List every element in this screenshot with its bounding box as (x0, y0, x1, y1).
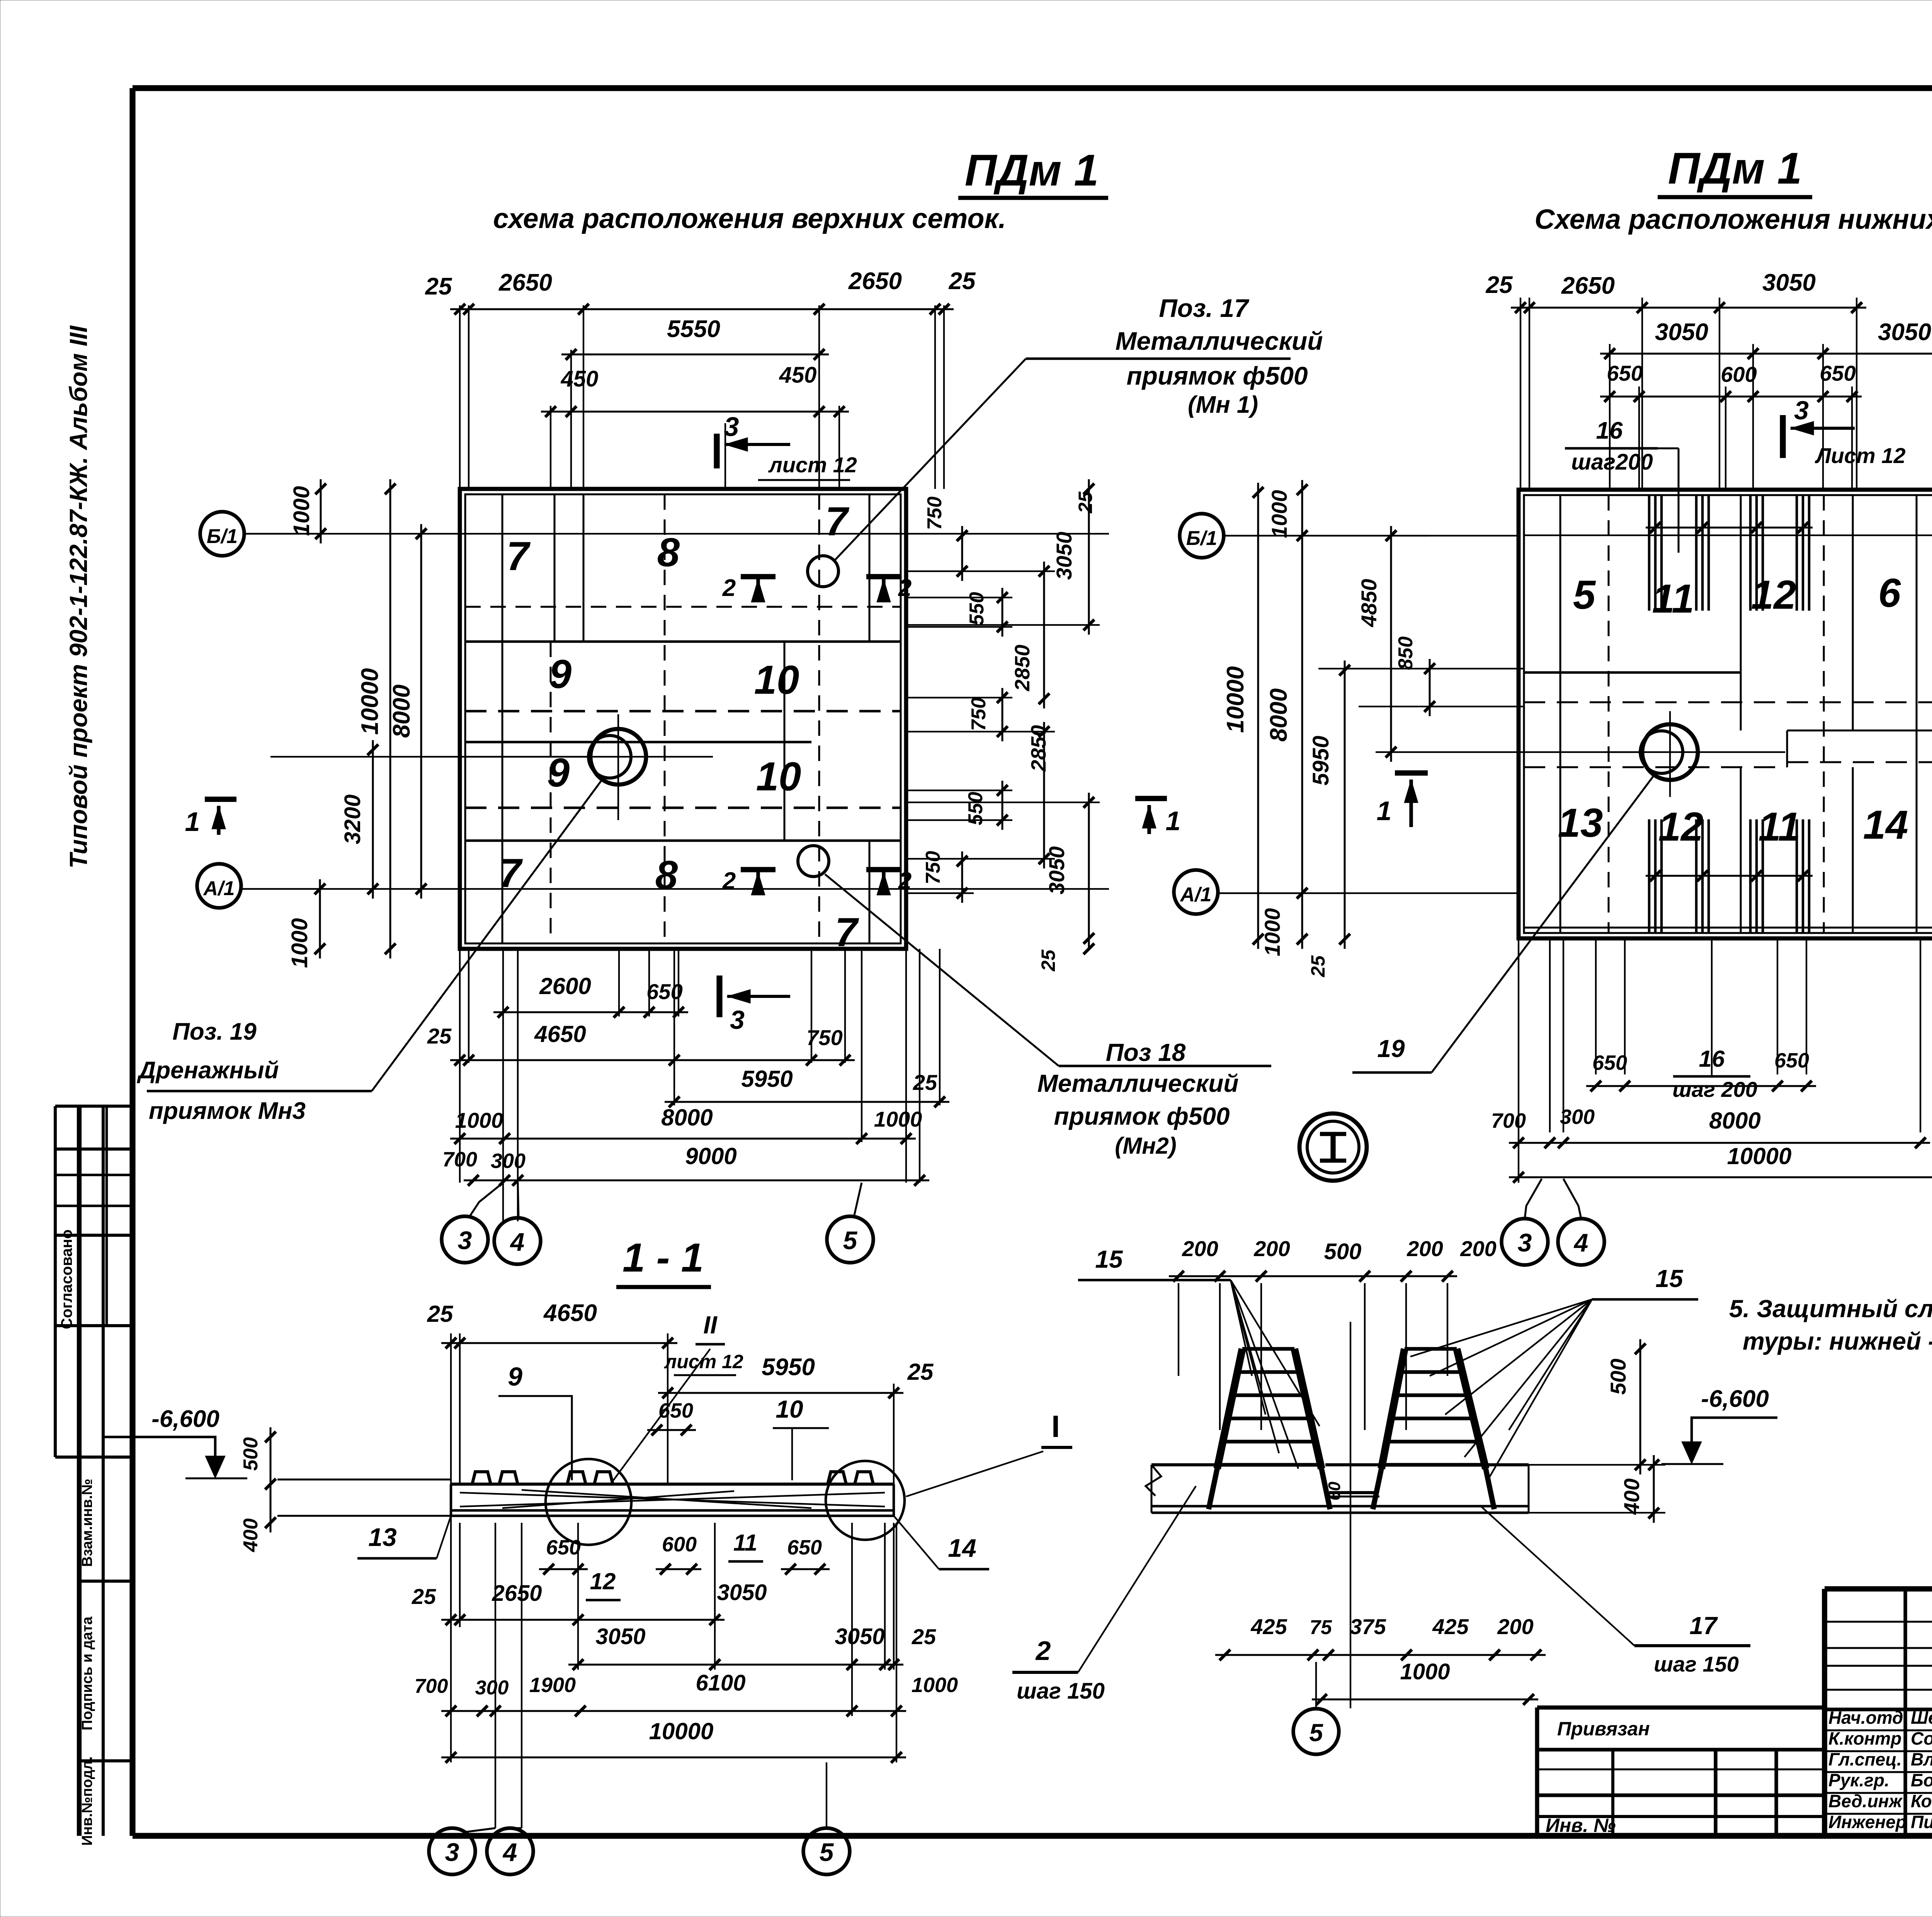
svg-text:Взам.инв.№: Взам.инв.№ (79, 1479, 95, 1567)
svg-text:Шейко: Шейко (1911, 1708, 1932, 1728)
svg-text:16: 16 (1596, 417, 1623, 444)
svg-text:13: 13 (368, 1523, 396, 1551)
svg-text:650: 650 (1607, 361, 1643, 385)
svg-text:Дренажный: Дренажный (137, 1057, 279, 1084)
svg-text:12: 12 (1658, 804, 1704, 850)
svg-text:650: 650 (1820, 361, 1855, 385)
svg-text:Инв. №: Инв. № (1546, 1815, 1616, 1836)
svg-text:Привязан: Привязан (1557, 1718, 1650, 1740)
svg-text:4650: 4650 (543, 1300, 597, 1326)
svg-text:2650: 2650 (492, 1581, 542, 1606)
svg-text:Гл.спец.: Гл.спец. (1828, 1749, 1902, 1769)
svg-text:19: 19 (1377, 1035, 1405, 1062)
svg-text:лист 12: лист 12 (768, 453, 857, 477)
svg-text:Власенко: Власенко (1911, 1749, 1932, 1769)
svg-text:-6,600: -6,600 (151, 1406, 219, 1432)
svg-text:25: 25 (427, 1024, 452, 1048)
svg-text:9000: 9000 (685, 1143, 736, 1169)
svg-text:12: 12 (590, 1568, 616, 1594)
svg-text:600: 600 (662, 1533, 697, 1556)
svg-text:К.контр: К.контр (1828, 1728, 1901, 1748)
svg-text:8000: 8000 (661, 1105, 713, 1130)
svg-text:17: 17 (1689, 1612, 1718, 1639)
svg-text:3: 3 (730, 1005, 745, 1035)
svg-text:лист 12: лист 12 (664, 1351, 743, 1372)
svg-text:приямок ф500: приямок ф500 (1054, 1102, 1230, 1130)
svg-text:6: 6 (1878, 570, 1901, 616)
svg-text:25: 25 (1486, 272, 1513, 298)
svg-text:5950: 5950 (741, 1066, 793, 1092)
svg-text:11: 11 (733, 1530, 757, 1556)
svg-text:1000: 1000 (874, 1107, 922, 1131)
svg-text:3: 3 (458, 1226, 472, 1255)
svg-text:3200: 3200 (340, 794, 365, 844)
svg-text:Сокольская: Сокольская (1911, 1728, 1932, 1748)
svg-text:700: 700 (1491, 1109, 1526, 1132)
svg-text:500: 500 (1324, 1239, 1362, 1264)
svg-text:750: 750 (923, 497, 946, 530)
svg-text:Поз. 19: Поз. 19 (172, 1018, 257, 1045)
svg-text:-6,600: -6,600 (1701, 1386, 1769, 1412)
svg-text:2: 2 (898, 868, 912, 894)
svg-text:I: I (1051, 1409, 1060, 1444)
svg-text:750: 750 (922, 851, 944, 885)
svg-text:7: 7 (507, 534, 531, 579)
svg-text:7: 7 (835, 910, 859, 955)
svg-text:шаг 200: шаг 200 (1672, 1077, 1757, 1102)
svg-text:10000: 10000 (1222, 666, 1249, 733)
svg-text:4650: 4650 (534, 1021, 586, 1047)
svg-text:7: 7 (825, 499, 850, 544)
svg-text:400: 400 (240, 1519, 262, 1553)
svg-text:1 - 1: 1 - 1 (622, 1235, 704, 1280)
svg-text:1000: 1000 (455, 1108, 503, 1132)
svg-text:300: 300 (491, 1149, 526, 1173)
svg-text:туры: нижней - 35мм, верхней: туры: нижней - 35мм, верхней - 20мм. (1743, 1327, 1932, 1355)
svg-text:650: 650 (1592, 1051, 1627, 1074)
svg-text:(Мн2): (Мн2) (1115, 1133, 1177, 1159)
svg-text:2: 2 (1035, 1636, 1051, 1666)
svg-text:Металлический: Металлический (1037, 1069, 1239, 1097)
svg-text:(Мн 1): (Мн 1) (1188, 392, 1258, 418)
svg-text:300: 300 (1560, 1105, 1595, 1129)
svg-text:Б/1: Б/1 (207, 525, 238, 548)
svg-text:25: 25 (1307, 955, 1329, 977)
svg-text:5: 5 (820, 1838, 834, 1866)
svg-text:II: II (703, 1311, 718, 1339)
svg-text:850: 850 (1395, 637, 1417, 670)
svg-text:12: 12 (1751, 572, 1796, 618)
svg-text:75: 75 (1310, 1616, 1332, 1639)
svg-text:Б/1: Б/1 (1186, 527, 1217, 550)
svg-text:1000: 1000 (287, 918, 312, 968)
svg-text:650: 650 (646, 979, 682, 1004)
svg-text:11: 11 (1652, 576, 1694, 621)
svg-text:5950: 5950 (1308, 735, 1333, 785)
svg-text:3050: 3050 (1655, 319, 1708, 346)
svg-text:3050: 3050 (1044, 846, 1069, 895)
svg-text:500: 500 (1606, 1359, 1630, 1394)
svg-text:3050: 3050 (1878, 319, 1931, 346)
svg-text:шаг 150: шаг 150 (1017, 1679, 1105, 1704)
svg-text:4: 4 (510, 1227, 525, 1256)
svg-text:Вед.инж: Вед.инж (1828, 1791, 1903, 1811)
svg-text:650: 650 (658, 1399, 693, 1422)
svg-text:Инженер: Инженер (1828, 1812, 1906, 1832)
svg-text:Борисенко: Борисенко (1911, 1770, 1932, 1790)
svg-text:1: 1 (1166, 806, 1181, 836)
svg-text:А/1: А/1 (203, 877, 235, 900)
svg-text:8000: 8000 (1265, 688, 1292, 742)
svg-text:5: 5 (843, 1226, 858, 1255)
svg-text:Поз 18: Поз 18 (1106, 1039, 1186, 1066)
svg-text:5550: 5550 (667, 316, 720, 342)
svg-text:8: 8 (655, 853, 678, 898)
svg-text:4: 4 (502, 1838, 517, 1866)
svg-text:Инв.№подл.: Инв.№подл. (79, 1756, 95, 1845)
svg-text:1000: 1000 (1400, 1659, 1450, 1684)
svg-text:13: 13 (1558, 800, 1603, 846)
svg-text:650: 650 (1774, 1049, 1809, 1072)
svg-text:ПДм 1: ПДм 1 (1668, 144, 1802, 193)
svg-text:8: 8 (657, 530, 680, 575)
svg-text:25: 25 (912, 1624, 936, 1649)
svg-text:1900: 1900 (529, 1674, 576, 1697)
svg-text:25: 25 (949, 268, 976, 295)
svg-text:2650: 2650 (1561, 272, 1615, 299)
svg-text:Нач.отд: Нач.отд (1828, 1708, 1903, 1728)
svg-text:10: 10 (754, 657, 799, 703)
svg-text:3050: 3050 (1052, 532, 1076, 580)
svg-text:450: 450 (561, 366, 599, 392)
svg-text:6100: 6100 (696, 1670, 745, 1696)
svg-text:11: 11 (1759, 804, 1801, 850)
svg-text:1000: 1000 (1260, 908, 1284, 957)
svg-text:5: 5 (1573, 572, 1596, 618)
svg-text:Пивоварова: Пивоварова (1911, 1812, 1932, 1832)
svg-text:1: 1 (1377, 796, 1392, 826)
svg-text:10000: 10000 (649, 1718, 714, 1744)
svg-text:2650: 2650 (848, 268, 902, 295)
svg-text:5950: 5950 (762, 1354, 815, 1381)
svg-text:450: 450 (779, 363, 817, 388)
svg-text:15: 15 (1655, 1265, 1684, 1292)
svg-text:425: 425 (1432, 1614, 1469, 1639)
svg-text:3050: 3050 (835, 1624, 884, 1649)
svg-text:2850: 2850 (1011, 645, 1034, 691)
svg-text:2600: 2600 (539, 973, 591, 999)
svg-text:425: 425 (1250, 1614, 1287, 1639)
svg-text:375: 375 (1350, 1614, 1386, 1639)
svg-text:9: 9 (508, 1362, 522, 1391)
svg-text:1000: 1000 (1267, 490, 1291, 538)
svg-text:приямок Мн3: приямок Мн3 (149, 1098, 306, 1124)
svg-text:3050: 3050 (595, 1624, 645, 1649)
svg-text:5: 5 (1309, 1719, 1323, 1747)
svg-text:Поз. 17: Поз. 17 (1159, 294, 1250, 322)
svg-text:1000: 1000 (912, 1674, 958, 1697)
svg-text:3050: 3050 (717, 1580, 767, 1605)
svg-text:500: 500 (240, 1437, 262, 1471)
svg-text:шаг200: шаг200 (1571, 449, 1653, 475)
svg-text:шаг 150: шаг 150 (1654, 1652, 1739, 1676)
svg-text:3: 3 (1518, 1228, 1532, 1257)
svg-text:Козина: Козина (1911, 1791, 1932, 1811)
svg-text:700: 700 (415, 1675, 448, 1697)
svg-text:Схема расположения нижних се: Схема расположения нижних сеток (1534, 204, 1932, 235)
svg-text:25: 25 (425, 273, 452, 300)
svg-text:5. Защитный слой бетона для: 5. Защитный слой бетона для рабочей арма… (1729, 1295, 1932, 1323)
svg-text:10000: 10000 (357, 668, 383, 735)
svg-text:А/1: А/1 (1180, 884, 1212, 906)
svg-text:3050: 3050 (1762, 269, 1816, 296)
svg-text:Подпись и дата: Подпись и дата (79, 1616, 95, 1730)
svg-text:3: 3 (1794, 396, 1809, 425)
svg-text:200: 200 (1253, 1236, 1290, 1261)
svg-text:200: 200 (1406, 1236, 1443, 1261)
svg-text:400: 400 (1619, 1478, 1644, 1515)
svg-text:25: 25 (1037, 949, 1059, 972)
svg-text:200: 200 (1497, 1614, 1533, 1639)
svg-text:25: 25 (913, 1070, 937, 1095)
svg-text:60: 60 (1325, 1481, 1344, 1500)
svg-text:8000: 8000 (388, 684, 415, 738)
svg-text:Согласовано: Согласовано (58, 1229, 75, 1329)
svg-text:1000: 1000 (289, 486, 314, 536)
svg-text:15: 15 (1095, 1245, 1123, 1273)
svg-text:4: 4 (1573, 1228, 1588, 1257)
svg-text:8000: 8000 (1709, 1108, 1760, 1134)
svg-text:300: 300 (475, 1677, 509, 1699)
svg-text:14: 14 (1863, 802, 1908, 848)
svg-text:схема расположения верхних с: схема расположения верхних сеток. (493, 203, 1006, 234)
svg-text:Металлический: Металлический (1115, 327, 1323, 355)
svg-text:25: 25 (427, 1301, 454, 1327)
svg-text:2: 2 (722, 575, 736, 601)
svg-text:ПДм 1: ПДм 1 (965, 146, 1099, 195)
svg-text:650: 650 (787, 1536, 822, 1559)
svg-text:25: 25 (1075, 491, 1096, 514)
svg-text:650: 650 (546, 1536, 581, 1559)
svg-text:200: 200 (1460, 1236, 1496, 1261)
svg-text:4850: 4850 (1357, 579, 1381, 628)
svg-text:9: 9 (549, 652, 571, 697)
svg-text:200: 200 (1182, 1236, 1218, 1261)
svg-text:10000: 10000 (1727, 1143, 1792, 1169)
svg-text:Лист 12: Лист 12 (1815, 443, 1905, 468)
svg-text:Типовой проект 902-1-122.87-: Типовой проект 902-1-122.87-КЖ. Альбом I… (65, 325, 92, 869)
svg-text:25: 25 (412, 1584, 436, 1609)
svg-text:2: 2 (722, 868, 736, 894)
svg-text:10: 10 (776, 1395, 803, 1423)
svg-text:600: 600 (1721, 362, 1757, 386)
svg-text:25: 25 (907, 1359, 934, 1385)
svg-text:приямок ф500: приямок ф500 (1126, 361, 1308, 390)
svg-text:1: 1 (185, 807, 200, 837)
svg-text:Рук.гр.: Рук.гр. (1828, 1770, 1889, 1790)
svg-text:10: 10 (756, 754, 801, 799)
svg-text:3: 3 (445, 1838, 459, 1866)
svg-text:2650: 2650 (498, 269, 552, 296)
svg-text:14: 14 (948, 1534, 976, 1562)
svg-text:750: 750 (968, 698, 990, 731)
svg-text:3: 3 (724, 412, 739, 442)
